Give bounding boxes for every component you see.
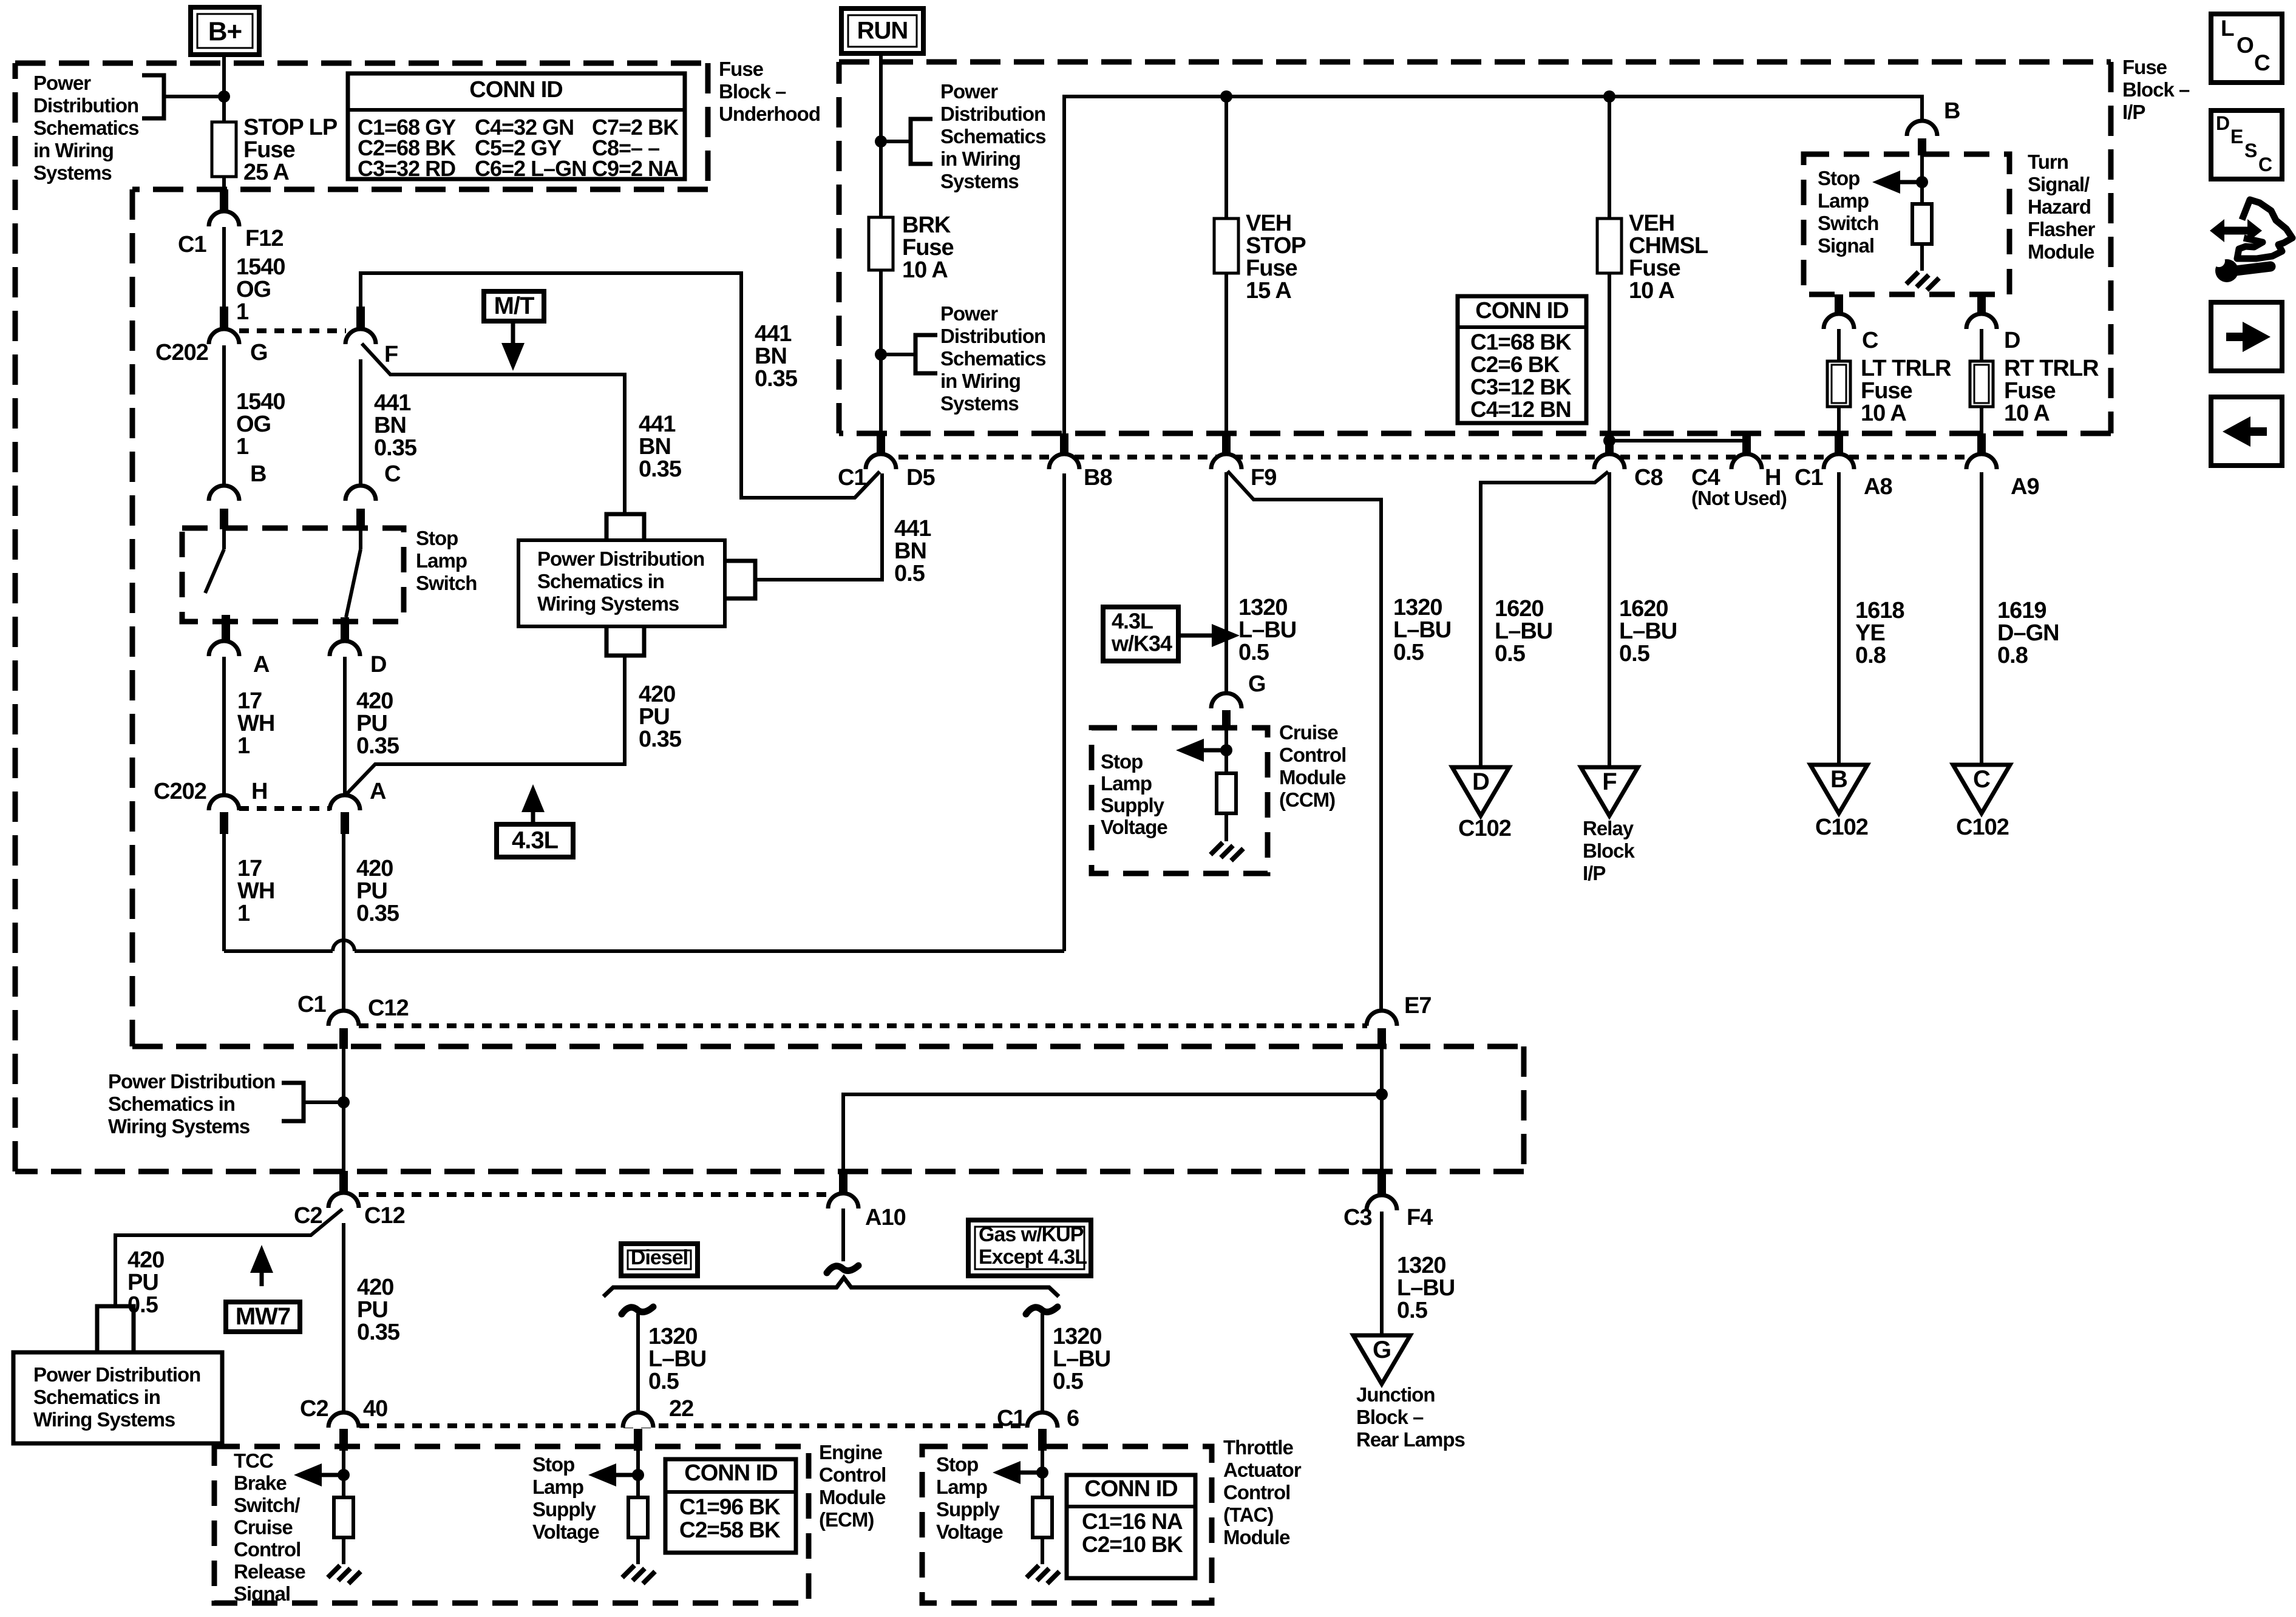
fork terminal into PDS box (top) xyxy=(606,514,644,540)
svg-text:F: F xyxy=(384,342,398,367)
svg-text:B: B xyxy=(250,461,266,487)
svg-text:Supply: Supply xyxy=(532,1498,597,1520)
svg-text:L–BU: L–BU xyxy=(1619,619,1677,644)
connector E7 arc xyxy=(1367,1011,1397,1026)
arrow 4.3L w/K34 applicability (right) xyxy=(1178,624,1240,647)
label B8 xyxy=(1084,465,1112,490)
connector C202 pin F stub xyxy=(356,307,365,330)
svg-text:C1: C1 xyxy=(297,992,326,1017)
svg-text:Power: Power xyxy=(33,72,91,94)
svg-text:Power: Power xyxy=(940,80,998,103)
svg-text:Lamp: Lamp xyxy=(1818,189,1869,212)
svg-text:Schematics in: Schematics in xyxy=(33,1386,160,1408)
wire top feed inside I/P block xyxy=(1064,97,1922,433)
label C2 (ECM) xyxy=(300,1396,328,1422)
wire gas branch to TAC C1-6 xyxy=(1041,1314,1044,1413)
label wire 17 WH 1 (upper) xyxy=(237,688,274,759)
svg-text:Block –: Block – xyxy=(1356,1406,1424,1428)
connector 22 stub xyxy=(634,1429,642,1451)
svg-text:C202: C202 xyxy=(154,779,206,804)
svg-text:C1: C1 xyxy=(1795,465,1823,490)
arrow stop lamp supply voltage (ECM) xyxy=(588,1463,638,1486)
wire E7 down to C3/F4 xyxy=(1380,1049,1384,1195)
svg-text:420: 420 xyxy=(357,1275,393,1300)
connector C2/C12 stub xyxy=(339,1171,348,1193)
svg-text:L–BU: L–BU xyxy=(1053,1346,1110,1372)
svg-text:Distribution: Distribution xyxy=(940,103,1045,125)
switch contact left lower xyxy=(222,615,230,641)
wire PDS box down to C202 A (420 PU 0.35) xyxy=(346,656,625,795)
wire stop lamp supply inside ECM xyxy=(636,1451,640,1497)
label wire 441 BN 0.35 (to PDS box) xyxy=(639,412,682,482)
svg-text:CONN ID: CONN ID xyxy=(469,77,562,103)
svg-text:Block: Block xyxy=(1583,839,1635,862)
svg-text:L–BU: L–BU xyxy=(1393,617,1451,643)
label wire 1320 L-BU 0.5 (rear feed) xyxy=(1393,595,1451,665)
svg-text:Wiring Systems: Wiring Systems xyxy=(108,1115,250,1137)
svg-text:VEH: VEH xyxy=(1246,211,1291,236)
option box 4.3L xyxy=(497,824,573,857)
svg-text:(ECM): (ECM) xyxy=(819,1508,874,1531)
wire 17WH/441BN run to B8 with crossover hump xyxy=(224,473,1064,951)
connector C1/D5 stub xyxy=(877,433,885,455)
CONN ID table ECM xyxy=(665,1459,796,1553)
svg-text:G: G xyxy=(1248,671,1266,697)
fuse RT TRLR 10A xyxy=(1970,361,1993,407)
label pin C xyxy=(384,461,401,487)
label F9 xyxy=(1251,465,1276,490)
svg-text:1620: 1620 xyxy=(1495,596,1544,622)
label C202 (upper) xyxy=(155,340,208,365)
svg-text:Fuse: Fuse xyxy=(1246,256,1297,281)
svg-text:(CCM): (CCM) xyxy=(1279,788,1335,811)
wire C12 down to C2/40 (420 PU 0.35) xyxy=(342,1223,345,1413)
connector pin D arc (below switch) xyxy=(330,641,360,656)
svg-text:in Wiring: in Wiring xyxy=(940,147,1021,170)
svg-text:C: C xyxy=(2254,50,2270,75)
ground TCC xyxy=(328,1565,361,1584)
label wire 1540 OG 1 (upper) xyxy=(236,254,285,325)
wire stop lamp supply inside TAC xyxy=(1041,1451,1044,1497)
label stop lamp supply voltage (TAC) xyxy=(936,1453,1003,1543)
label cruise control module CCM xyxy=(1279,721,1346,811)
svg-text:Systems: Systems xyxy=(940,392,1019,415)
connector H arc xyxy=(1731,454,1762,469)
svg-text:B: B xyxy=(1830,766,1847,793)
svg-text:Distribution: Distribution xyxy=(33,94,138,117)
icon box left arrow xyxy=(2211,397,2282,466)
svg-text:Fuse: Fuse xyxy=(1629,256,1680,281)
svg-text:L: L xyxy=(2221,16,2234,41)
junction dot TAC stop lamp xyxy=(1036,1466,1048,1479)
label C202 (lower) xyxy=(154,779,206,804)
label pin D (flasher) xyxy=(2004,328,2020,353)
svg-text:0.35: 0.35 xyxy=(374,435,417,461)
svg-text:Fuse: Fuse xyxy=(1861,378,1912,404)
CONN ID table I/P fuse block xyxy=(1458,296,1586,423)
label wire 441 BN 0.35 (right of loop) xyxy=(755,321,798,392)
svg-text:Actuator: Actuator xyxy=(1223,1459,1302,1481)
svg-text:G: G xyxy=(250,340,268,365)
svg-text:D5: D5 xyxy=(906,465,935,490)
svg-text:1619: 1619 xyxy=(1997,598,2046,623)
offpage connector B triangle xyxy=(1810,765,1867,813)
label wire 420 PU 0.35 (lower) xyxy=(356,856,399,926)
svg-text:Schematics: Schematics xyxy=(33,117,138,139)
svg-text:Block –: Block – xyxy=(719,80,786,103)
wire VEH CHMSL fuse branch xyxy=(1608,97,1611,219)
fuse BRK 10A xyxy=(869,217,893,270)
svg-text:Lamp: Lamp xyxy=(416,549,467,572)
svg-text:17: 17 xyxy=(237,688,262,714)
junction dot B+ feed xyxy=(218,90,230,103)
svg-text:Stop: Stop xyxy=(1101,750,1143,773)
svg-text:Diesel: Diesel xyxy=(631,1246,688,1269)
label C1 (C12 row) xyxy=(297,992,326,1017)
label pin A xyxy=(253,652,270,677)
svg-text:0.5: 0.5 xyxy=(894,561,925,586)
offpage connector D triangle xyxy=(1452,767,1509,816)
svg-text:Except 4.3L: Except 4.3L xyxy=(979,1246,1087,1269)
svg-text:Switch/: Switch/ xyxy=(234,1494,300,1516)
svg-text:C2=6 BK: C2=6 BK xyxy=(1470,352,1560,377)
connector E7 stub xyxy=(1377,1028,1386,1049)
svg-text:C3=32 RD: C3=32 RD xyxy=(358,156,455,181)
svg-text:Schematics: Schematics xyxy=(940,347,1045,370)
svg-text:C3=12 BK: C3=12 BK xyxy=(1470,375,1572,399)
svg-text:10 A: 10 A xyxy=(1861,401,1906,426)
svg-text:0.5: 0.5 xyxy=(1619,641,1650,666)
label turn signal hazard flasher module xyxy=(2028,151,2096,263)
wire F to stop lamp switch C xyxy=(359,359,362,486)
label VEH CHMSL fuse 10 A xyxy=(1629,211,1708,303)
connector flasher pin C arc xyxy=(1824,314,1854,329)
connector stop lamp switch pin B arc xyxy=(209,486,239,501)
wire resistor to ground (flasher) xyxy=(1920,244,1924,271)
svg-text:0.5: 0.5 xyxy=(1495,641,1526,666)
svg-text:Release: Release xyxy=(234,1561,305,1583)
svg-text:Switch: Switch xyxy=(416,572,477,594)
svg-text:C12: C12 xyxy=(368,995,409,1021)
connector line C2/40-22-C1/6 dotted xyxy=(359,1423,1027,1428)
label stop lamp switch xyxy=(416,527,477,594)
svg-text:0.5: 0.5 xyxy=(1053,1369,1084,1394)
label wire 17 WH 1 (lower) xyxy=(237,856,274,926)
option box Gas w/KUP Except 4.3L xyxy=(968,1220,1091,1276)
label stop lamp switch signal xyxy=(1818,167,1878,257)
svg-text:1540: 1540 xyxy=(236,389,285,415)
label junction block - rear lamps xyxy=(1356,1383,1465,1451)
wire F9 to CCM G (1320 L-BU) xyxy=(1224,472,1228,694)
svg-text:441: 441 xyxy=(894,516,931,541)
svg-text:C: C xyxy=(384,461,401,487)
connector H stub xyxy=(1742,433,1751,455)
svg-text:1: 1 xyxy=(236,299,249,325)
svg-text:Power Distribution: Power Distribution xyxy=(108,1070,275,1093)
connector A9 arc xyxy=(1966,454,1997,469)
svg-text:C102: C102 xyxy=(1458,816,1511,841)
fuse STOP LP 25A xyxy=(212,122,236,177)
connector F9 stub xyxy=(1222,433,1231,455)
ground flasher module xyxy=(1906,272,1939,290)
label wire 1320 L-BU 0.5 (gas) xyxy=(1053,1324,1110,1394)
svg-text:Cruise: Cruise xyxy=(234,1516,293,1539)
svg-text:L–BU: L–BU xyxy=(648,1346,706,1372)
connector A10 stub xyxy=(839,1171,847,1193)
svg-text:C6=2 L–GN: C6=2 L–GN xyxy=(475,156,586,181)
wire CCM internal xyxy=(1224,728,1228,773)
junction dot CHMSL to H xyxy=(1603,435,1615,447)
ground CCM xyxy=(1211,842,1243,861)
svg-text:D–GN: D–GN xyxy=(1997,620,2059,646)
label wire 420 PU 0.35 (PDS to C202) xyxy=(639,682,682,752)
svg-text:Module: Module xyxy=(1223,1526,1290,1548)
svg-text:B8: B8 xyxy=(1084,465,1112,490)
svg-text:RUN: RUN xyxy=(857,18,908,44)
wire flasher C to LT TRLR fuse xyxy=(1837,329,1841,361)
svg-text:1320: 1320 xyxy=(1397,1253,1446,1278)
label C102 (D) xyxy=(1458,816,1511,841)
svg-text:YE: YE xyxy=(1855,620,1885,646)
svg-text:C: C xyxy=(2258,154,2272,175)
wire RUN down to BRK fuse xyxy=(879,53,883,217)
svg-text:E: E xyxy=(2230,126,2243,147)
label E7 xyxy=(1404,993,1431,1019)
svg-text:Throttle: Throttle xyxy=(1223,1436,1293,1459)
svg-text:10 A: 10 A xyxy=(2004,401,2050,426)
svg-text:H: H xyxy=(1765,465,1781,490)
svg-text:Wiring Systems: Wiring Systems xyxy=(33,1408,175,1431)
connector flasher pin D stub xyxy=(1977,294,1986,314)
option box MW7 xyxy=(226,1302,300,1332)
wire TCC resistor to ground xyxy=(342,1537,345,1564)
svg-text:CHMSL: CHMSL xyxy=(1629,233,1708,259)
svg-text:A10: A10 xyxy=(865,1205,906,1230)
svg-text:Module: Module xyxy=(1279,766,1346,788)
connector A9 stub xyxy=(1977,433,1986,455)
label BRK fuse 10 A xyxy=(902,212,954,283)
connector C1 (underhood fuse block) terminal stub xyxy=(220,189,228,211)
label wire 1320 L-BU 0.5 (CCM) xyxy=(1238,595,1296,665)
wire flasher internal xyxy=(1920,155,1924,204)
wire VEH STOP fuse branch xyxy=(1224,97,1228,219)
svg-text:F4: F4 xyxy=(1407,1205,1433,1230)
svg-text:BN: BN xyxy=(639,434,671,459)
wire flasher D to RT TRLR fuse xyxy=(1980,329,1983,361)
label stop lamp supply voltage (CCM) xyxy=(1101,750,1167,838)
svg-text:Schematics in: Schematics in xyxy=(537,570,664,592)
label engine control module ECM xyxy=(819,1441,886,1531)
ground TAC xyxy=(1027,1565,1059,1584)
svg-text:WH: WH xyxy=(237,878,274,904)
svg-text:L–BU: L–BU xyxy=(1238,617,1296,643)
svg-text:C2=58 BK: C2=58 BK xyxy=(679,1517,781,1542)
svg-text:Relay: Relay xyxy=(1583,817,1634,839)
icon box right arrow xyxy=(2211,302,2282,371)
connector C1/6 stub xyxy=(1038,1429,1047,1451)
svg-text:1: 1 xyxy=(236,434,249,459)
svg-text:Stop: Stop xyxy=(532,1453,574,1476)
svg-text:Module: Module xyxy=(2028,240,2094,263)
connector line C1/D5..A9 dotted xyxy=(898,455,1967,459)
svg-text:C202: C202 xyxy=(155,340,208,365)
connector C1/C12 stub xyxy=(339,1028,348,1049)
fuse LT TRLR 10A xyxy=(1827,361,1850,407)
svg-text:C102: C102 xyxy=(1956,815,2009,840)
svg-text:Wiring Systems: Wiring Systems xyxy=(537,592,679,615)
svg-text:1320: 1320 xyxy=(1393,595,1442,620)
svg-text:CONN ID: CONN ID xyxy=(1084,1476,1177,1502)
svg-text:C2: C2 xyxy=(294,1203,322,1229)
svg-text:Signal: Signal xyxy=(234,1582,290,1605)
svg-text:D: D xyxy=(2004,328,2020,353)
svg-text:420: 420 xyxy=(127,1247,164,1273)
svg-text:420: 420 xyxy=(639,682,675,707)
wire resistor to ground (CCM) xyxy=(1224,813,1228,841)
junction dot ECM stop lamp xyxy=(632,1469,644,1481)
connector pin C stub xyxy=(356,509,365,529)
label A10 xyxy=(865,1205,906,1230)
svg-text:Lamp: Lamp xyxy=(1101,772,1152,795)
offpage connector F triangle xyxy=(1581,767,1638,816)
svg-text:D: D xyxy=(2216,112,2229,134)
wire TAC resistor to ground xyxy=(1041,1537,1044,1564)
svg-text:Flasher: Flasher xyxy=(2028,218,2096,240)
svg-text:Rear Lamps: Rear Lamps xyxy=(1356,1428,1465,1451)
label C8 xyxy=(1634,465,1663,490)
svg-text:in Wiring: in Wiring xyxy=(33,139,114,161)
svg-text:L–BU: L–BU xyxy=(1397,1275,1455,1301)
label 40 xyxy=(363,1396,387,1422)
connector 22 arc xyxy=(623,1412,653,1428)
throttle actuator control module dashed box xyxy=(922,1446,1212,1603)
svg-text:C9=2 NA: C9=2 NA xyxy=(592,156,679,181)
wire F diagonal branch to PDS box xyxy=(362,344,625,514)
svg-text:Schematics in: Schematics in xyxy=(108,1093,235,1115)
svg-text:0.35: 0.35 xyxy=(755,366,798,392)
svg-text:Systems: Systems xyxy=(940,170,1019,192)
wire B+ to STOP LP fuse xyxy=(222,55,226,122)
label wire 441 BN 0.35 (switch feed) xyxy=(374,390,417,461)
wire A8 to B triangle xyxy=(1837,472,1841,765)
wire VEH CHMSL fuse to C8/H xyxy=(1609,273,1747,456)
label wire 420 PU 0.35 (bottom) xyxy=(357,1275,400,1345)
connector A8 arc xyxy=(1824,454,1854,469)
label pin F xyxy=(384,342,398,367)
svg-text:Fuse: Fuse xyxy=(719,58,764,80)
svg-text:Power: Power xyxy=(940,302,998,325)
bracket to power distribution schematics (B+) xyxy=(142,75,224,118)
power terminal B+ box xyxy=(191,7,259,55)
svg-text:1540: 1540 xyxy=(236,254,285,280)
label STOP LP fuse 25 A xyxy=(243,115,338,185)
svg-text:F12: F12 xyxy=(245,226,283,251)
label wire 420 PU 0.5 xyxy=(127,1247,164,1318)
fuse VEH CHMSL 10A xyxy=(1597,219,1622,273)
svg-text:0.35: 0.35 xyxy=(356,901,399,926)
svg-text:Stop: Stop xyxy=(416,527,458,549)
label 6 xyxy=(1067,1406,1079,1431)
switch contact right lower xyxy=(341,617,349,641)
svg-text:6: 6 xyxy=(1067,1406,1079,1431)
label C12 (upper) xyxy=(368,995,409,1021)
connector line C202 G-F dotted xyxy=(239,328,346,333)
connector F9 arc xyxy=(1211,454,1241,469)
svg-text:40: 40 xyxy=(363,1396,387,1422)
svg-text:0.5: 0.5 xyxy=(1238,640,1269,665)
svg-text:Control: Control xyxy=(819,1463,886,1486)
fork terminal from PDS box (bottom) xyxy=(606,626,644,656)
label A8 xyxy=(1864,474,1892,500)
junction dot VEH CHMSL feed xyxy=(1603,90,1615,103)
terminal fork to PDS box (MW7 area) xyxy=(97,1306,134,1352)
option box Diesel xyxy=(621,1244,698,1276)
wire F9 diagonal to rear lamps feed xyxy=(1228,471,1381,1011)
solid box power distribution schematics (center) xyxy=(518,540,725,626)
wire TCC branch inside ECM xyxy=(342,1451,345,1497)
connector CCM pin G stub xyxy=(1222,710,1231,728)
connector C202 pin G arc xyxy=(209,329,239,344)
label D5 xyxy=(906,465,935,490)
offpage connector G triangle xyxy=(1353,1335,1410,1384)
connector C202 pin A stub xyxy=(341,812,349,834)
cruise control module dashed box xyxy=(1092,728,1268,873)
resistor CCM xyxy=(1217,773,1236,813)
connector flasher pin C stub xyxy=(1835,294,1843,314)
svg-text:PU: PU xyxy=(127,1270,158,1295)
svg-text:C1: C1 xyxy=(838,465,866,490)
wire fuse to connector C1 xyxy=(222,177,226,191)
label wire 1618 YE 0.8 xyxy=(1855,598,1904,668)
svg-text:Fuse: Fuse xyxy=(243,137,295,163)
svg-text:Power Distribution: Power Distribution xyxy=(33,1363,200,1386)
solid box power distribution schematics (bottom left) xyxy=(13,1352,222,1443)
svg-text:C2: C2 xyxy=(300,1396,328,1422)
connector B8 stub xyxy=(1060,433,1068,455)
svg-text:0.8: 0.8 xyxy=(1855,643,1886,668)
svg-text:C: C xyxy=(1862,328,1878,353)
svg-text:0.5: 0.5 xyxy=(1393,640,1424,665)
svg-text:0.35: 0.35 xyxy=(357,1320,400,1345)
svg-text:1320: 1320 xyxy=(1053,1324,1102,1349)
label wire 1320 L-BU 0.5 (to junction block) xyxy=(1397,1253,1455,1323)
svg-text:BN: BN xyxy=(894,538,926,564)
label relay block I/P xyxy=(1583,817,1635,884)
svg-text:Voltage: Voltage xyxy=(532,1520,599,1543)
wire CHMSL top feed to flasher B xyxy=(1920,122,1924,136)
label C4 / (Not Used) xyxy=(1691,465,1787,509)
bracket PDS box right side xyxy=(726,561,755,598)
arrow 4.3L applicability (up) xyxy=(521,784,545,824)
connector stop lamp switch pin C arc xyxy=(345,486,376,501)
label C1 (trailer fuses) xyxy=(1795,465,1823,490)
break symbol gas branch xyxy=(1026,1307,1058,1314)
CONN ID table TAC xyxy=(1067,1475,1195,1578)
svg-text:Schematics: Schematics xyxy=(940,125,1045,147)
svg-text:in Wiring: in Wiring xyxy=(940,370,1021,392)
label pin A (C202 lower) xyxy=(370,779,386,804)
label power distribution schematics in wiring systems (top left) xyxy=(33,72,138,184)
svg-text:F9: F9 xyxy=(1251,465,1276,490)
label wire 1620 L-BU 0.5 (left) xyxy=(1495,596,1552,666)
svg-text:1: 1 xyxy=(237,901,250,926)
svg-text:0.35: 0.35 xyxy=(356,733,399,759)
connector C3/F4 arc xyxy=(1367,1195,1397,1210)
svg-text:Fuse: Fuse xyxy=(2122,56,2167,78)
svg-text:Underhood: Underhood xyxy=(719,103,820,125)
svg-text:Turn: Turn xyxy=(2028,151,2068,173)
arrow TCC brake switch signal xyxy=(294,1463,344,1486)
